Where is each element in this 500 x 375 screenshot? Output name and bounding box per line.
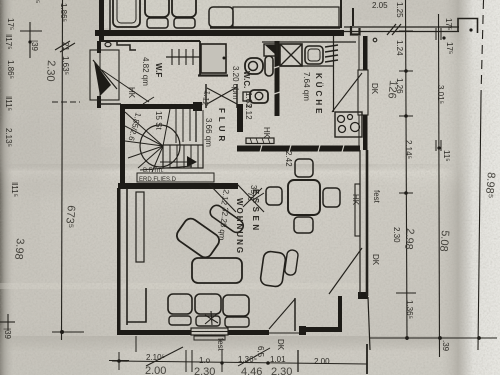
svg-text:2.12: 2.12: [244, 104, 253, 120]
strike through 35: [243, 188, 262, 207]
svg-text:‖17⁵: ‖17⁵: [4, 34, 13, 50]
svg-text:1.25: 1.25: [395, 2, 404, 18]
svg-text:673⁵: 673⁵: [63, 205, 77, 229]
kitchen grille hatches: [325, 45, 338, 47]
svg-text:fest: fest: [216, 338, 225, 352]
svg-text:2.10⁵: 2.10⁵: [146, 353, 165, 362]
svg-text:15 St: 15 St: [154, 111, 163, 130]
svg-text:17⁵: 17⁵: [445, 42, 454, 54]
paper top-left tone: [0, 0, 120, 110]
svg-text:2.30: 2.30: [194, 366, 215, 375]
neighbour inner wall line: [109, 0, 111, 31]
dim A cross bottom: [52, 331, 84, 333]
svg-text:17⁵|: 17⁵|: [444, 18, 453, 32]
chain line: [112, 361, 367, 364]
WF left wall upper: [97, 41, 101, 53]
bottom wall mid part: [228, 330, 269, 335]
couch star mark: [205, 311, 218, 325]
neighbour unit interior light: [104, 0, 341, 28]
right wall inner: [359, 150, 361, 296]
faint crease living: [0, 283, 370, 289]
svg-text:3.66 qm: 3.66 qm: [204, 118, 213, 147]
side pill: [284, 249, 298, 275]
paper blotch top-center light: [90, 25, 250, 115]
top wall thin extension to right: [344, 26, 459, 28]
kitchen counter right edge: [333, 36, 335, 112]
WF wall to stair wall connection: [99, 103, 121, 105]
svg-text:‖11⁵: ‖11⁵: [10, 182, 19, 197]
svg-text:W.C.: W.C.: [242, 71, 251, 88]
svg-text:1.63⁵: 1.63⁵: [61, 56, 70, 75]
strike on 1.365: [238, 348, 270, 366]
svg-text:17⁵: 17⁵: [6, 18, 15, 30]
SE corner extension: [368, 297, 370, 350]
dining chair right: [323, 188, 340, 207]
toilet cistern pill: [265, 56, 273, 76]
stair wall stub: [193, 102, 202, 111]
kitchen right wall window inner line: [358, 36, 360, 70]
svg-text:7.64 qm: 7.64 qm: [302, 72, 311, 101]
svg-text:5.08: 5.08: [437, 230, 451, 252]
WC/kitchen wall (dashed thick): [275, 41, 280, 116]
dim line R1: [406, 0, 408, 340]
svg-text:1.24: 1.24: [395, 40, 404, 56]
neighbour chair 2: [172, 0, 196, 17]
armchair pill top: [208, 203, 246, 235]
strike lines: [140, 166, 192, 170]
svg-text:8.98⁵: 8.98⁵: [483, 172, 497, 199]
side armchair: [260, 251, 287, 288]
couch back cushion 1: [168, 294, 192, 314]
R1 tick y116: [399, 115, 413, 117]
toilet inner circle: [249, 62, 258, 71]
svg-text:21: 21: [61, 42, 70, 51]
couch seat 2: [196, 316, 220, 326]
diele-living wall (thick): [118, 183, 238, 189]
entrance door hinge circle: [105, 42, 111, 46]
couch back cushion 3: [223, 295, 249, 316]
start cross: [109, 360, 129, 362]
svg-text:1.86⁵: 1.86⁵: [59, 3, 68, 22]
WC left wall: [199, 41, 201, 76]
paper light patch upper right: [355, 25, 485, 195]
dot: [266, 361, 270, 365]
couch back cushion 2: [195, 294, 221, 314]
terrace door2 leaf: [294, 298, 296, 331]
svg-text:1.86⁵: 1.86⁵: [6, 60, 15, 79]
wall edge extension: [135, 336, 137, 352]
couch seat 3: [225, 317, 249, 327]
left window inner edge: [127, 288, 146, 322]
svg-text:|39: |39: [3, 328, 12, 340]
dining chair left: [266, 187, 282, 205]
WF left wall lower: [97, 96, 101, 108]
stair walking circle: [140, 125, 180, 167]
small dot top right of kitchen: [373, 38, 377, 42]
svg-text:W.F: W.F: [154, 63, 163, 77]
armchair big: [174, 216, 222, 260]
stair direction line: [160, 161, 188, 163]
WF top wall: [99, 40, 200, 42]
R2 dot bottom: [438, 336, 442, 340]
SE pier block: [358, 292, 368, 299]
neighbour counter front edge thick: [210, 26, 340, 29]
terrace door2 swing: [269, 299, 295, 329]
stair right edge: [195, 109, 197, 142]
svg-text:⁵: ⁵: [32, 0, 41, 3]
svg-text:HK: HK: [262, 127, 271, 139]
svg-text:FLUR: FLUR: [217, 108, 226, 145]
stair treads vertical: [175, 109, 177, 143]
door gap threshold: [269, 332, 299, 334]
svg-text:HK: HK: [351, 194, 360, 206]
svg-text:2.30: 2.30: [392, 227, 401, 243]
washbasin inner circle: [255, 92, 263, 100]
R2 double tick mid: [435, 140, 437, 151]
svg-text:2.05: 2.05: [372, 1, 388, 10]
svg-text:ERD.FLIES.D: ERD.FLIES.D: [139, 177, 177, 183]
dim A cross y102: [52, 101, 80, 103]
stair boxed text: [137, 173, 214, 182]
kitchen sink unit bottom: [335, 112, 362, 137]
washbasin shelf: [243, 92, 250, 101]
svg-text:35: 35: [249, 185, 258, 194]
kitchen window frame: [358, 70, 368, 115]
dim line A: [62, 0, 63, 340]
strike on 2.105: [146, 347, 183, 366]
svg-text:1.o: 1.o: [199, 356, 211, 365]
stair left wall: [120, 104, 125, 189]
corner door swing diagonal: [329, 248, 362, 294]
kitchen right wall lower: [363, 115, 368, 150]
WC closet bottom wall: [198, 74, 228, 76]
dim B cross: [20, 30, 42, 32]
R1 tick y293: [396, 292, 416, 294]
svg-text:DK: DK: [370, 83, 379, 95]
kitchen NE corner notch: [351, 26, 360, 35]
toilet bowl: [245, 58, 263, 74]
terrace door threshold: [191, 328, 228, 335]
svg-text:KÜCHE: KÜCHE: [314, 73, 323, 116]
neighbour counter right edge upper: [352, 8, 354, 26]
left sideboard: [136, 192, 144, 262]
dining table: [288, 180, 320, 215]
kitchen corner unit with triangle: [264, 44, 277, 56]
svg-text:2.98: 2.98: [402, 228, 416, 250]
svg-text:2.30: 2.30: [44, 60, 57, 82]
bottom right chain line: [370, 337, 497, 339]
coffee table: [192, 258, 242, 283]
kitchen sink X box: [280, 44, 302, 66]
wall tick slashes: [387, 24, 396, 35]
couch seat 1: [169, 316, 191, 325]
svg-text:.39: .39: [441, 340, 450, 352]
svg-text:4.46: 4.46: [241, 366, 262, 375]
neighbour cushion 2: [174, 18, 195, 28]
kitchen right wall upper: [363, 36, 368, 70]
dim line B: [29, 22, 31, 58]
neighbour cupboard: [113, 0, 140, 27]
svg-text:1.01: 1.01: [270, 355, 286, 364]
WF grille line: [166, 56, 201, 58]
kitchen-living wall (thick dashed): [237, 146, 360, 152]
interior dim cross: [253, 193, 264, 200]
svg-text:WOHNUNG: WOHNUNG: [235, 198, 244, 255]
hall door swing lines: [237, 184, 264, 212]
R1 dot y193: [404, 191, 408, 195]
svg-text:‖11⁵: ‖11⁵: [4, 96, 13, 111]
svg-text:DK: DK: [276, 339, 285, 351]
living left inner wall line: [126, 188, 128, 325]
entrance door frame inner line: [99, 50, 101, 100]
flur radiator bar: [246, 138, 274, 144]
WF grille ticks: [171, 49, 173, 65]
kitchen door swing diagonal: [332, 73, 362, 112]
neighbour bench rounded: [209, 7, 233, 27]
SE jog wall vertical: [338, 296, 342, 330]
paper blotch bottom-left: [0, 330, 120, 375]
kitchen stove: [305, 46, 323, 64]
bottom wall east part: [299, 327, 342, 332]
neighbour right wall: [340, 0, 342, 28]
dim line R3 solid: [478, 95, 481, 350]
double tick: [185, 350, 187, 372]
tick fest: [221, 350, 223, 372]
R3 cross bottom: [469, 337, 490, 339]
svg-text:2.42: 2.42: [284, 151, 293, 167]
stair arrow head: [187, 156, 197, 167]
paper mid highlight: [40, 20, 460, 350]
svg-text:2.13⁵: 2.13⁵: [4, 128, 13, 147]
svg-text:1.36⁵: 1.36⁵: [238, 355, 257, 364]
svg-text:2.00: 2.00: [314, 357, 330, 366]
big tick: [297, 350, 299, 372]
R2 double tick top: [435, 28, 437, 40]
right wall outer: [366, 150, 369, 296]
svg-text:DK: DK: [371, 254, 380, 266]
svg-text:HK: HK: [127, 87, 136, 99]
WF kitchen interior light: [101, 37, 359, 147]
paper blotch living: [120, 200, 280, 270]
entrance door swing line: [102, 70, 149, 102]
entrance door frame: [90, 50, 119, 100]
bottom wall pier: [299, 326, 306, 335]
WF step corner: [117, 41, 136, 50]
WC door X symbol: [207, 87, 237, 104]
dining chair top: [295, 159, 313, 177]
svg-text:11⁵: 11⁵: [442, 150, 451, 162]
dim line R2: [439, 14, 440, 357]
end vertical: [366, 344, 368, 374]
neighbour counter long rect: [233, 7, 339, 27]
wall end hook pier: [458, 19, 478, 34]
svg-text:1.36⁵: 1.36⁵: [405, 300, 414, 319]
entrance door filled triangle: [94, 61, 111, 96]
stair small text line1: [143, 168, 164, 174]
duct wall: [237, 104, 243, 132]
WC closet box: [201, 44, 226, 73]
hook dot: [469, 28, 472, 31]
stair winder radials: [125, 112, 163, 146]
flur left boundary line: [202, 110, 204, 166]
kitchen inner top wall line: [262, 41, 356, 43]
stair lower flight box: [163, 145, 203, 168]
svg-text:3.01⁵: 3.01⁵: [436, 85, 445, 104]
dining chair bottom: [294, 217, 313, 233]
svg-text:4.82 qm: 4.82 qm: [141, 57, 150, 86]
paper blotch left-middle: [0, 105, 115, 195]
svg-text:2.30: 2.30: [271, 366, 292, 375]
svg-text:3.98: 3.98: [12, 238, 26, 260]
kitchen counter front edge: [280, 65, 334, 67]
svg-text:126: 126: [385, 80, 399, 99]
svg-text:|39: |39: [30, 40, 39, 52]
entrance door leaf line: [93, 60, 117, 89]
R1 tick y31: [399, 30, 413, 32]
neighbour separating wall (thick): [95, 30, 344, 36]
paper left dark edge: [0, 0, 14, 375]
neighbour cushion 1: [147, 18, 168, 28]
svg-text:2.00: 2.00: [145, 365, 166, 375]
bottom wall west part: [117, 330, 191, 335]
svg-text:fest: fest: [372, 190, 381, 204]
dim A tick 21: [55, 41, 70, 50]
R1 cross y338: [396, 337, 417, 339]
svg-text:2.14⁵: 2.14⁵: [404, 140, 413, 159]
WC door jambs: [205, 84, 207, 108]
dim line R3 dashed top: [481, 0, 484, 95]
R1 tick y71: [399, 70, 413, 72]
stair lower treads: [169, 145, 171, 168]
living left outer wall: [117, 188, 121, 335]
right radiator: [355, 184, 360, 236]
neighbour left wall: [99, 0, 104, 41]
svg-text:6,5: 6,5: [256, 346, 265, 358]
terrace step hatched: [194, 336, 225, 340]
neighbour chair 1: [145, 0, 169, 17]
stair top wall: [120, 104, 196, 109]
paper bottom fold band: [0, 336, 500, 375]
washbasin: [250, 90, 268, 103]
sink circles: [338, 116, 345, 123]
paper right fold bright strip: [440, 0, 500, 375]
left edge cross bottom: [0, 321, 15, 323]
WC closet dot: [223, 57, 226, 60]
swing end cross: [143, 97, 154, 104]
paper horizontal fold band: [0, 164, 460, 186]
svg-text:3.20 qbm: 3.20 qbm: [231, 66, 240, 100]
